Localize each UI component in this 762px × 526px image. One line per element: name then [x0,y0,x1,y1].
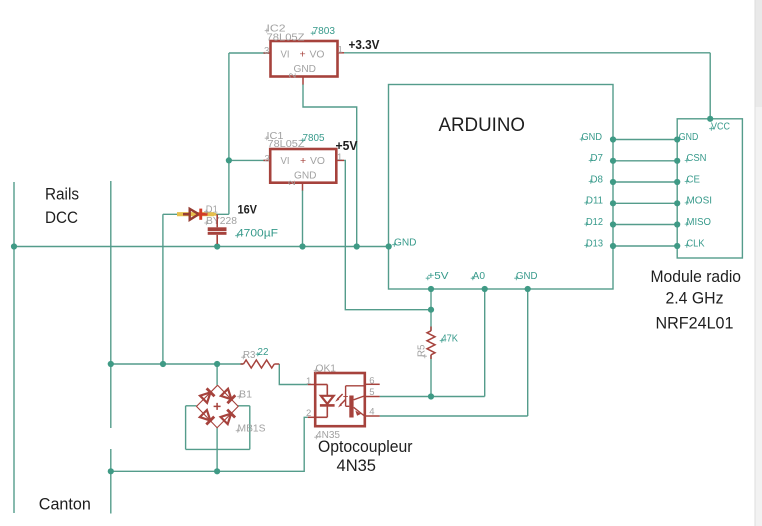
wire +3.3V horizontal [344,52,710,54]
text Module radio [651,267,742,286]
resistor R3 [241,360,280,368]
arduino pin label D7 [589,153,604,164]
text NRF24L01 [656,314,734,333]
svg-text:GND: GND [394,238,417,249]
arduino pin label GND bottom [514,271,537,282]
IC1 plus mark [300,155,306,167]
svg-text:78L05Z: 78L05Z [267,33,305,44]
module pin label MISO [685,217,712,228]
svg-text:+: + [300,49,306,61]
svg-text:7805: 7805 [303,132,325,144]
text Canton [39,495,91,514]
wire DCC rail 1 (GND rail) horizontal [14,246,389,248]
svg-text:GND: GND [679,132,699,143]
voltage regulator IC1 78L05Z box [270,149,336,183]
junction node 17 [707,116,713,122]
svg-text:22: 22 [258,346,269,358]
bridge B1 diode SW [200,410,214,425]
bridge B1 diode SE [221,410,236,425]
junction node 14 [525,286,531,292]
wire IC2 GND jog [303,84,357,247]
resistor R5 name label [417,344,428,358]
svg-text:D7: D7 [591,153,604,164]
svg-text:4N35: 4N35 [337,456,377,475]
svg-text:+5V: +5V [336,139,359,153]
optocoupler pin stubs [308,384,380,417]
bridge B1 name label [237,390,252,401]
svg-text:D8: D8 [591,174,604,185]
svg-text:R3: R3 [243,350,256,361]
svg-text:2.4 GHz: 2.4 GHz [666,289,724,308]
module pin label VCC [709,122,730,133]
junction node 10 [108,468,114,474]
junction arduino pin row 6 [610,243,616,249]
svg-text:Module radio: Module radio [651,267,742,286]
IC1 GND label [294,171,317,182]
wire diode branch vertical [162,214,164,364]
wire bridge bottom [216,428,218,472]
junction arduino pin row 5 [610,221,616,227]
optocoupler LED [315,385,334,418]
svg-text:1: 1 [338,45,343,56]
svg-text:MB1S: MB1S [238,424,266,435]
svg-text:Rails: Rails [45,185,79,204]
optocoupler OK1 box [315,373,365,426]
net label 7805 [301,132,325,144]
svg-text:VI: VI [281,156,290,167]
diode D1 [183,209,216,220]
svg-text:GND: GND [516,271,538,282]
wire bridge top [216,364,218,385]
junction node 2 [214,243,220,249]
screen edge strip [755,0,762,526]
IC2 VO label [310,50,325,61]
junction module pin row 1 [674,136,680,142]
IC1 pin number 2 [287,180,298,185]
IC2 pin number 1 [338,45,343,56]
junction node 8 [160,361,166,367]
junction node 7 [108,361,114,367]
svg-text:CSN: CSN [687,153,707,164]
wire IC1 +5V run [344,160,431,309]
wire +5V pin vertical lower (R5) [430,355,432,397]
arduino pin label D13 [584,238,603,249]
junction module pin row 5 [674,221,680,227]
wire R3 to opto pin1 [279,364,308,385]
wire SPI row 2 [613,160,677,162]
wire y364 row [111,363,244,365]
capacitor C1 value label [235,228,278,240]
svg-text:1: 1 [337,152,342,163]
diode D1 name label [204,205,218,216]
svg-text:D12: D12 [586,217,603,228]
svg-text:VI: VI [281,50,290,61]
net label +3.3V [349,38,381,52]
wire +5V pin vertical upper [430,289,432,331]
IC2 pin number 2 [288,73,299,78]
svg-text:MISO: MISO [687,217,712,228]
IC2 name label [265,24,286,35]
bridge B1 plus mark [214,403,221,410]
svg-text:2: 2 [287,180,298,185]
junction node 12 [428,286,434,292]
optocoupler value label 4N35 [314,430,340,441]
svg-text:A0: A0 [473,271,486,282]
module NRF24L01 block [677,119,742,258]
junction module pin row 6 [674,243,680,249]
svg-text:GND: GND [294,171,317,182]
junction node 13 [482,286,488,292]
wire SPI row 4 [613,202,677,204]
wire DCC rail 1 vertical [13,182,15,513]
optocoupler pin number 6 [369,376,374,387]
text Optocoupleur [318,437,413,456]
svg-text:VO: VO [310,50,325,61]
junction node 4 [354,243,360,249]
text Rails [45,185,79,204]
IC2 pin stubs [264,53,345,85]
svg-text:NRF24L01: NRF24L01 [656,314,734,333]
svg-text:7803: 7803 [313,25,336,37]
module pin label CLK [685,238,705,249]
optocoupler pin number 4 [369,407,374,418]
junction node 11 [214,468,220,474]
svg-text:47K: 47K [442,333,459,345]
junction module pin row 4 [674,200,680,206]
svg-text:2: 2 [306,408,311,419]
IC1 value label 78L05Z [268,139,305,150]
junction node 1 [11,243,17,249]
junction node 16 [428,393,434,399]
bridge B1 diode NW [200,388,215,402]
svg-text:16V: 16V [238,203,258,217]
optocoupler pin number 1 [306,376,311,387]
capacitor C1 4700uF [208,214,227,244]
resistor R3 name label [241,350,256,361]
IC1 VI label [281,156,290,167]
svg-text:B1: B1 [239,390,252,401]
resistor R5 value label 47K [440,333,458,345]
svg-text:D13: D13 [586,238,603,249]
bridge B1 diode NE [221,389,235,403]
junction node 5 [386,243,392,249]
svg-text:VCC: VCC [711,122,730,133]
net label 16V [238,203,258,217]
wire DCC rail 2 vertical (lower) [110,449,112,514]
junction module pin row 2 [674,158,680,164]
junction node 3 [299,243,305,249]
IC2 value label 78L05Z [267,33,305,44]
arduino left GND pin label [392,238,416,249]
svg-text:CE: CE [687,174,701,185]
svg-text:Canton: Canton [39,495,91,514]
svg-text:DCC: DCC [45,208,78,227]
arduino label [439,115,526,136]
wire +3.3V vertical to VCC [709,53,711,119]
wire SPI row 3 [613,181,677,183]
op-amp ARDUINO block U1 [389,85,614,290]
voltage regulator IC2 78L05Z box [271,41,338,77]
IC2 plus mark [300,49,306,61]
IC1 pin stubs [264,160,345,190]
diode D1 value label BY228 [204,216,237,227]
wire DCC rail 2 vertical (upper) [110,181,112,428]
optocoupler phototransistor [343,386,365,418]
arduino pin label D8 [589,174,604,185]
svg-text:CLK: CLK [687,238,705,249]
optocoupler name label OK1 [314,364,337,375]
svg-text:+5V: +5V [428,271,449,282]
wire node A0 row [380,396,485,398]
wire diode row horizontal [163,213,229,215]
wire SPI row 6 [613,245,677,247]
net label +5V [336,139,359,153]
svg-text:VO: VO [310,156,325,167]
optocoupler pin number 5 [369,387,374,398]
svg-text:+3.3V: +3.3V [349,38,381,52]
svg-text:BY228: BY228 [206,216,237,227]
junction arduino pin row 4 [610,200,616,206]
IC1 VO label [310,156,325,167]
svg-text:D11: D11 [586,196,603,207]
arduino pin label +5V bottom [426,271,449,282]
junction node 9 [214,361,220,367]
module pin label MOSI [685,196,712,207]
svg-text:6: 6 [369,376,374,387]
wire regulator input vertical [228,53,230,214]
IC2 pin number 3 [264,46,269,57]
wire GND pin vertical [527,289,529,416]
junction node 6 [226,157,232,163]
IC1 pin number 1 [337,152,342,163]
IC1 name label [265,131,284,142]
resistor R5 [427,327,435,360]
IC2 VI label [281,50,290,61]
svg-text:R5: R5 [417,344,428,357]
wire SPI row 5 [613,224,677,226]
text 2.4 GHz [666,289,724,308]
svg-text:3: 3 [264,46,269,57]
svg-text:Optocoupleur: Optocoupleur [318,437,413,456]
wire emitter GND row [380,415,528,417]
arduino pin label D11 [584,196,603,207]
module pin label GND [677,132,698,143]
IC1 pin number 3 [265,154,270,165]
optocoupler light arrows [335,394,345,408]
junction arduino pin row 1 [610,136,616,142]
wire A0 pin vertical [484,289,486,397]
svg-text:5: 5 [369,387,374,398]
wire IC1 GND vertical [302,190,304,247]
wire IC1 input horizontal [229,159,270,161]
module pin label CE [685,174,701,185]
junction module pin row 3 [674,179,680,185]
arduino pin label D12 [584,217,603,228]
text 4N35 black [337,456,377,475]
wire bridge loop box [186,406,250,450]
svg-text:MOSI: MOSI [687,196,713,207]
module pin label CSN [685,153,707,164]
optocoupler pin number 2 [306,408,311,419]
junction arduino pin row 2 [610,158,616,164]
wire IC2 input horizontal [229,52,271,54]
svg-text:4700µF: 4700µF [237,228,278,240]
text DCC [45,208,78,227]
svg-text:4: 4 [369,407,374,418]
svg-text:GND: GND [582,132,603,143]
svg-text:1: 1 [306,376,311,387]
svg-text:3: 3 [265,154,270,165]
arduino pin label A0 bottom [471,271,486,282]
svg-text:OK1: OK1 [316,364,337,375]
svg-text:ARDUINO: ARDUINO [439,115,526,136]
junction node 15 [428,307,434,313]
arduino pin label GND [580,132,602,143]
IC2 GND label [294,64,317,75]
svg-text:D1: D1 [206,205,218,216]
highlight on diode D1 [177,212,214,216]
svg-text:2: 2 [288,73,299,78]
net label 7803 [311,25,335,37]
wire SPI row 1 [613,139,677,141]
svg-text:+: + [300,155,306,167]
bridge B1 frame [197,385,239,428]
junction arduino pin row 3 [610,179,616,185]
resistor R3 value label 22 [256,346,269,358]
svg-text:78L05Z: 78L05Z [268,139,305,150]
wire opto pin2 to canton [111,417,308,471]
bridge B1 value label MB1S [236,424,266,435]
